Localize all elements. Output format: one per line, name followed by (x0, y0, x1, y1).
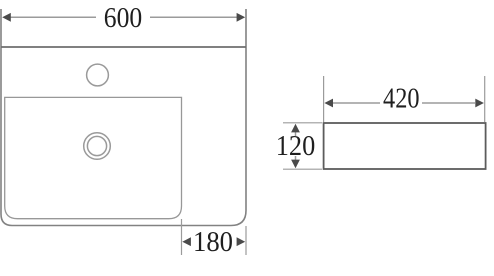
svg-text:120: 120 (276, 131, 316, 162)
svg-text:180: 180 (193, 227, 233, 258)
svg-text:420: 420 (383, 83, 420, 114)
svg-text:600: 600 (104, 3, 143, 34)
